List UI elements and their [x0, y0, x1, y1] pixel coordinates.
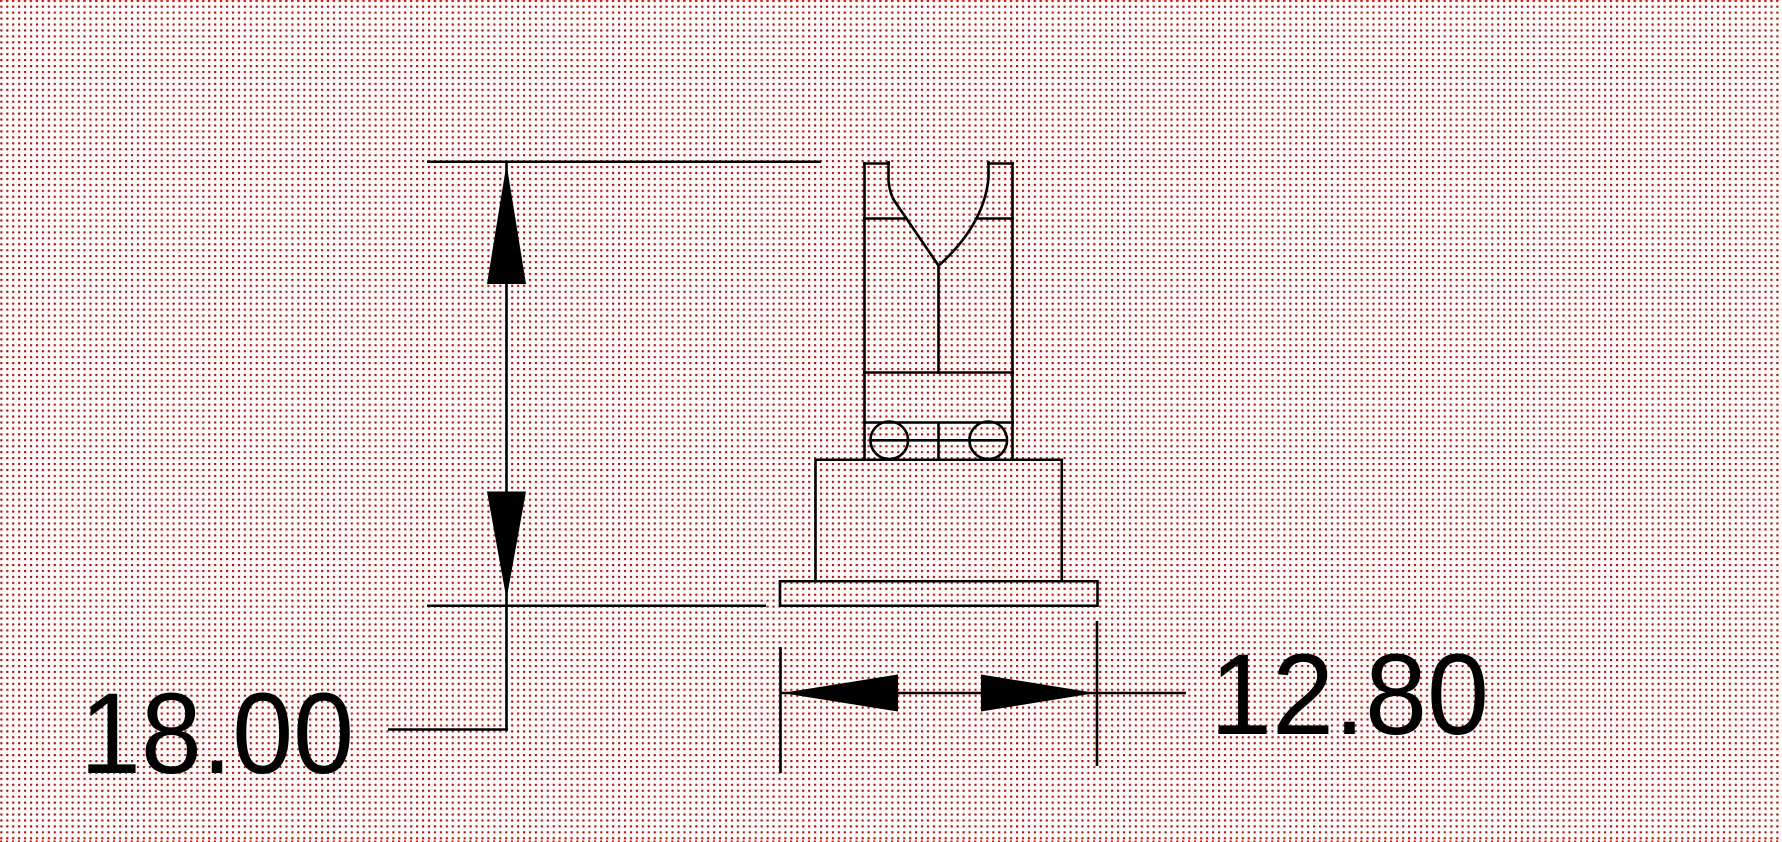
svg-text:12.80: 12.80 [1210, 631, 1489, 759]
left tab top edge [863, 162, 890, 165]
extension line left (width datum) [779, 647, 782, 773]
left tab inner edge and V throat left curve [889, 161, 939, 266]
arrowhead up [487, 164, 526, 284]
clip body right edge [1011, 162, 1014, 461]
arrowhead down [487, 492, 526, 600]
vertical dimension line [505, 162, 508, 730]
leader to 18.00 label [388, 728, 508, 731]
arrowhead left [782, 675, 898, 712]
center stem lower segment [937, 422, 940, 461]
extension line bottom (height datum) [427, 604, 766, 607]
rivet circle left [870, 422, 908, 460]
clip body left edge [863, 162, 866, 461]
arrowhead right [981, 675, 1096, 712]
right tab top edge [987, 162, 1014, 165]
svg-text:18.00: 18.00 [80, 670, 354, 798]
rivet chord line [871, 439, 1008, 442]
flange [780, 581, 1098, 606]
V throat center stem [937, 264, 940, 374]
body cross line lower [863, 421, 1014, 424]
slot shoulder line right [975, 217, 1015, 220]
slot shoulder line left [863, 217, 908, 220]
base block [816, 460, 1062, 582]
extension line right (width datum) [1096, 621, 1099, 766]
right tab inner edge and V throat right curve [938, 161, 988, 266]
horizontal dimension line with leader [781, 692, 1187, 695]
body cross line upper [863, 371, 1014, 374]
extension line top (height datum) [427, 160, 821, 163]
rivet circle right [969, 422, 1007, 460]
